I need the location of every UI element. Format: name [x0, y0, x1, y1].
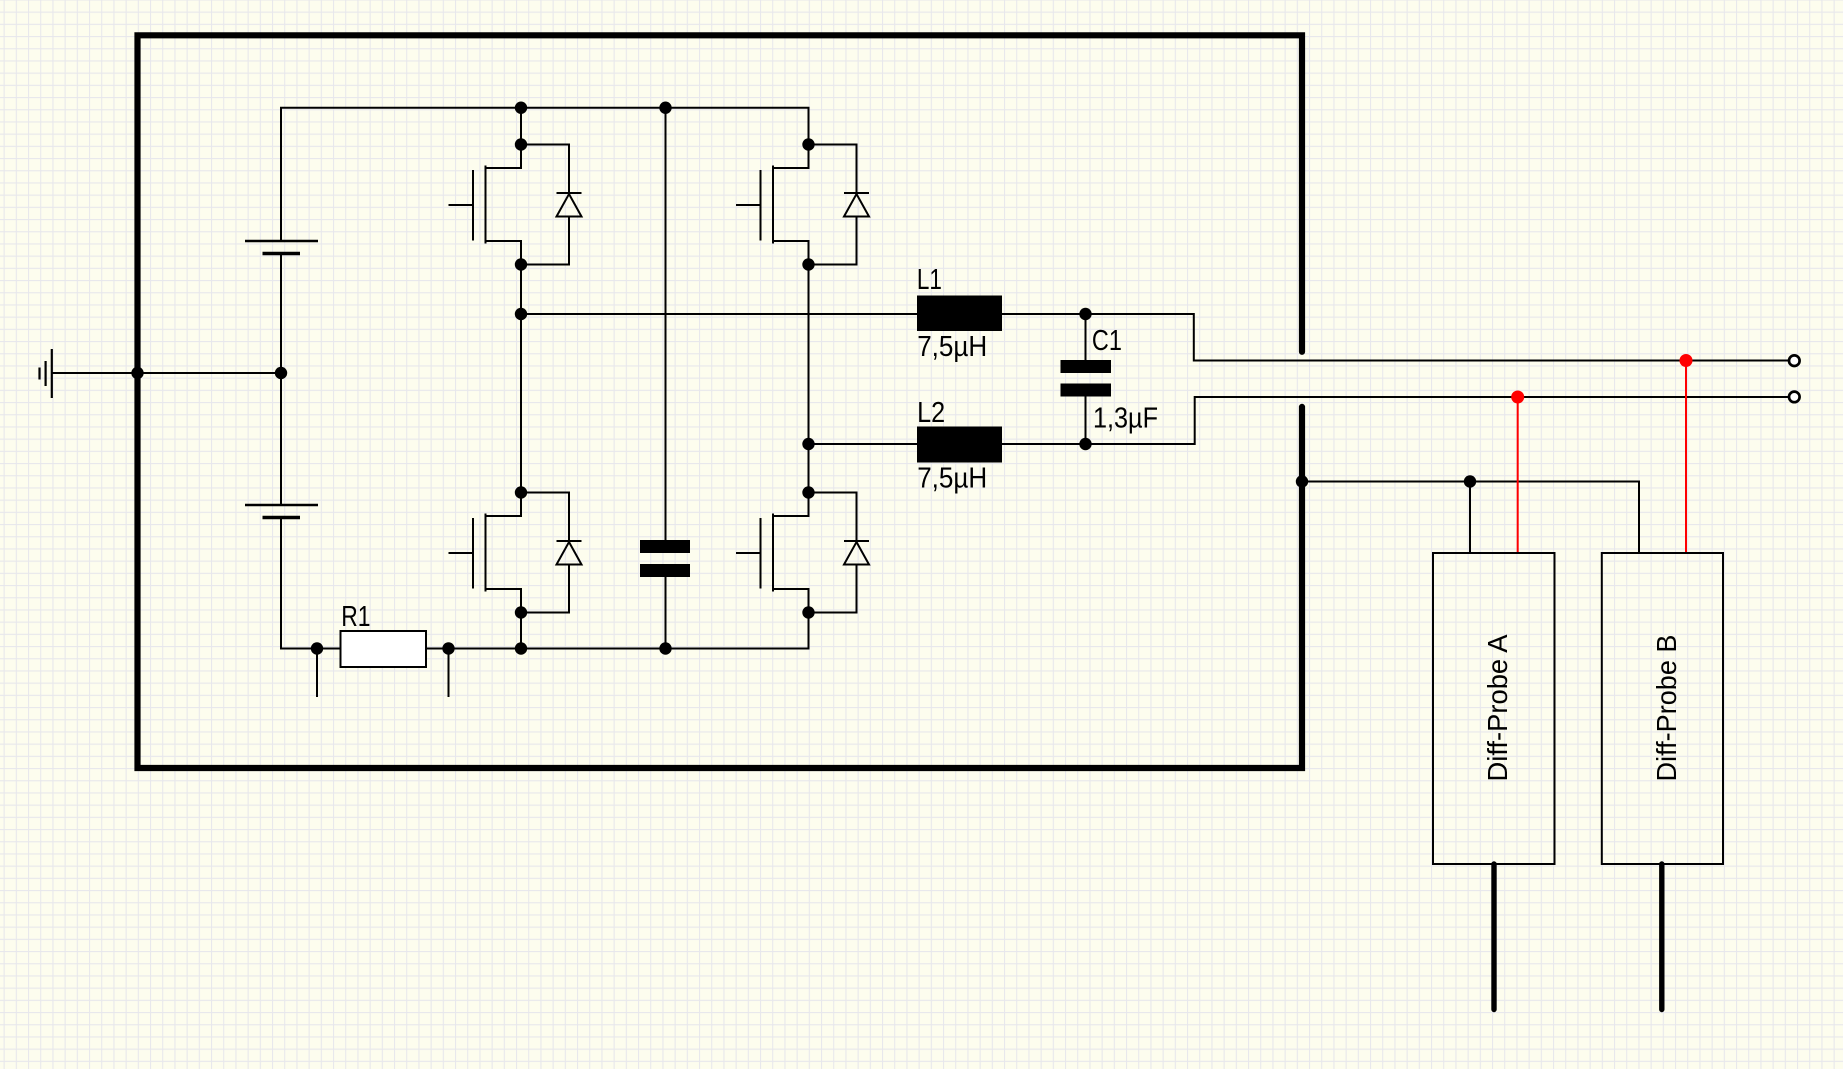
wire probe A ground drop [1469, 482, 1471, 554]
node shield / probe ground [1296, 475, 1308, 487]
wire phase A upper [520, 108, 522, 145]
node phase B / L2 row [802, 438, 814, 450]
wire probe ground bus [1302, 482, 1639, 554]
probe A box [1433, 553, 1555, 864]
node Q4 source [802, 606, 814, 618]
enclosure shield border [138, 35, 1303, 768]
battery B1 [245, 241, 318, 254]
node bus / R1 left [311, 642, 323, 654]
node Q4 drain [802, 486, 814, 498]
test stub left [316, 649, 318, 698]
node Q2 source [802, 258, 814, 270]
ground [40, 349, 52, 398]
wire phase A lower [520, 613, 522, 649]
probe A tip [1491, 864, 1496, 1010]
wire negative rail to R1 [281, 518, 341, 649]
node Q3 drain [515, 486, 527, 498]
transistor Q2 [736, 145, 869, 265]
node left rail / ground junction [275, 367, 287, 379]
wire ground to left rail [52, 372, 281, 374]
wire bottom bus [426, 613, 809, 649]
capacitor C2 (DC link) [640, 540, 690, 577]
wire L2 to jog [1002, 397, 1789, 444]
wire output B row [809, 443, 918, 445]
node top bus / phase A [515, 102, 527, 114]
svg-text:C1: C1 [1092, 325, 1122, 357]
test stub right [448, 649, 450, 698]
transistor Q1 [449, 145, 582, 265]
wire output A row [521, 313, 917, 315]
wire phase B middle [808, 265, 810, 493]
node Q2 drain [802, 138, 814, 150]
probe B tip [1659, 864, 1664, 1010]
resistor R1 [341, 631, 427, 667]
wire DC-link top [665, 108, 667, 540]
battery B2 [245, 505, 318, 518]
node probe A tap (red) [1511, 391, 1524, 404]
node bus / phase A [515, 642, 527, 654]
node Q1 drain [515, 138, 527, 150]
transistor Q4 [736, 493, 869, 613]
terminal output B [1789, 392, 1800, 403]
svg-text:7,5µH: 7,5µH [917, 331, 987, 363]
svg-text:L2: L2 [917, 397, 945, 429]
wire L1 to jog [1002, 314, 1789, 361]
wire DC-link bottom [665, 577, 667, 649]
inductor L1 [917, 296, 1002, 332]
node bus / DC-link [659, 642, 671, 654]
svg-text:L1: L1 [917, 264, 942, 296]
node probe B tap (red) [1680, 354, 1693, 367]
probe B box [1602, 553, 1723, 864]
node top bus / DC-link [659, 102, 671, 114]
node Q3 source [515, 606, 527, 618]
inductor L2 [917, 427, 1002, 463]
wire left rail middle [280, 254, 282, 506]
svg-text:Diff-Probe A: Diff-Probe A [1482, 634, 1513, 781]
transistor Q3 [449, 493, 582, 613]
capacitor C1 [1085, 314, 1087, 360]
node C1 top [1079, 308, 1091, 320]
node bus / R1 right [442, 642, 454, 654]
svg-text:R1: R1 [341, 601, 370, 633]
wire top bus [281, 108, 809, 241]
svg-text:7,5µH: 7,5µH [917, 462, 987, 494]
node C1 bottom [1079, 438, 1091, 450]
node probe ground junction [1464, 475, 1476, 487]
wire phase A middle [520, 265, 522, 493]
wire probe A signal (red) [1517, 397, 1519, 553]
svg-text:1,3µF: 1,3µF [1093, 402, 1158, 434]
junction on shield border [131, 367, 143, 379]
svg-text:Diff-Probe B: Diff-Probe B [1651, 635, 1682, 782]
wire probe B signal (red) [1685, 361, 1687, 554]
terminal output A [1789, 355, 1800, 366]
node phase A / output [515, 308, 527, 320]
node Q1 source [515, 258, 527, 270]
